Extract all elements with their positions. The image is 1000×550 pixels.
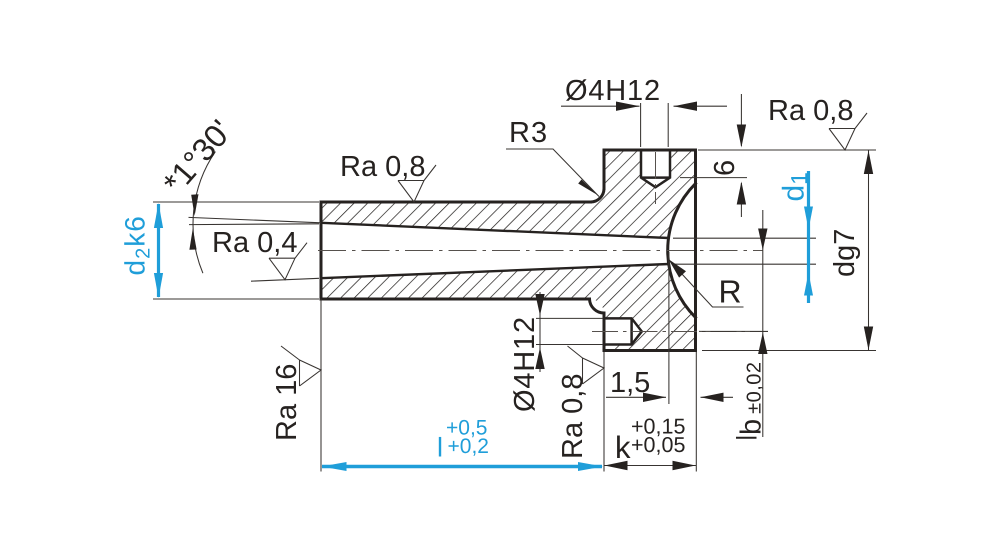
body left face: [320, 202, 323, 299]
svg-text:Ra 0,8: Ra 0,8: [340, 151, 425, 183]
bottom hole centerline: [592, 330, 768, 332]
top hole outline: [641, 150, 670, 187]
b hole-centre tick: [699, 330, 768, 332]
head bottom extension right: [702, 350, 876, 352]
svg-text:Ra 0,8: Ra 0,8: [768, 95, 853, 127]
Ra 0,4 surface extension: [251, 278, 319, 281]
head right face extension down: [695, 352, 697, 472]
horizontal angle reference line: [189, 223, 319, 226]
body bottom edge: [321, 298, 590, 301]
d1 dimension (blue): [804, 171, 813, 303]
part outline: [321, 150, 696, 351]
head bottom edge: [604, 349, 696, 352]
top edge extension left: [153, 201, 319, 203]
body top edge: [321, 201, 591, 204]
taper top extension left: [189, 217, 322, 222]
svg-text:Ra 16: Ra 16: [271, 364, 303, 441]
angle arc arrow top: [191, 194, 198, 216]
svg-text:d1: d1: [778, 172, 813, 201]
svg-text:Ra 0,4: Ra 0,4: [212, 227, 297, 259]
main centerline: [318, 250, 763, 252]
svg-text:k: k: [615, 430, 631, 465]
svg-text:l: l: [437, 433, 443, 463]
Ra 16 symbol (rotated): [281, 346, 321, 386]
svg-text:+0,05: +0,05: [631, 433, 685, 457]
bottom hole dia extension top: [536, 317, 603, 319]
head right face: [694, 150, 697, 351]
d2k6 dimension (blue): [154, 203, 163, 298]
svg-text:dg7: dg7: [829, 229, 861, 277]
svg-text:6: 6: [709, 160, 741, 176]
section material with hatching: [321, 150, 696, 351]
fillet R3 top: [591, 189, 605, 203]
svg-text:+0,2: +0,2: [448, 435, 489, 458]
bottom hole outline: [604, 318, 642, 344]
taper end extension right bottom (d1): [673, 263, 816, 265]
svg-text:R: R: [719, 274, 742, 310]
taper end extension right top (d1): [673, 237, 816, 239]
angle dimension arc: [193, 152, 215, 274]
svg-text:R3: R3: [509, 117, 548, 149]
head top edge: [604, 149, 696, 152]
body left face extension down: [320, 299, 322, 472]
svg-text:Ø4H12: Ø4H12: [509, 316, 541, 412]
bottom edge extension left: [153, 298, 319, 300]
head top extension right: [698, 149, 876, 151]
head left face top: [603, 150, 606, 189]
Ra 0,8 top-left symbol: [398, 165, 436, 202]
top hole dia extension left: [640, 103, 642, 147]
svg-text:Ra 0,8: Ra 0,8: [557, 374, 589, 459]
bore taper lines: [321, 223, 669, 278]
Ra 0,8 bottom symbol (rotated): [568, 346, 605, 384]
head left face extension down: [603, 352, 605, 472]
sphere deep point extension down: [668, 252, 670, 404]
hole shoulder extension right: [680, 177, 747, 179]
top hole dia extension right: [667, 103, 669, 147]
Ra 0,8 top-right symbol: [829, 113, 867, 150]
svg-text:d2k6: d2k6: [120, 215, 155, 275]
angle arc arrow bottom: [189, 229, 196, 250]
top hole centerline: [655, 152, 657, 204]
svg-text:*1°30': *1°30': [156, 113, 239, 201]
svg-text:Ø4H12: Ø4H12: [565, 75, 661, 107]
bottom hole dia extension bottom: [536, 344, 603, 346]
thin extension lines: [153, 103, 876, 472]
sphere seat arc R: [668, 184, 696, 318]
Ra 0,4 symbol: [269, 243, 307, 280]
head left face bottom: [603, 313, 606, 351]
fillet bottom: [590, 299, 605, 313]
